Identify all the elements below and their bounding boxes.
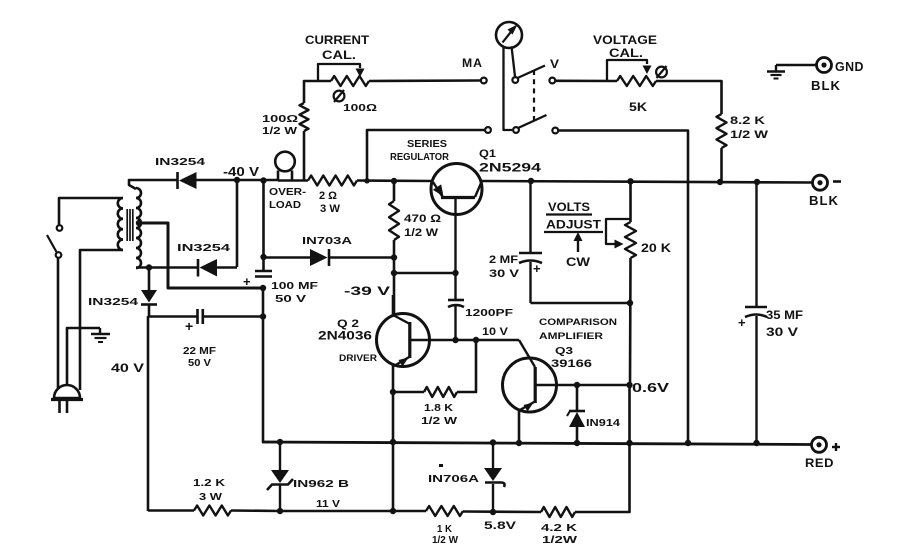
node 20K-2MF junction bbox=[627, 300, 633, 306]
svg-text:-39 V: -39 V bbox=[344, 286, 391, 298]
svg-text:11 V: 11 V bbox=[316, 498, 340, 510]
svg-text:10 V: 10 V bbox=[482, 326, 509, 338]
node 1N914 bottom junction bbox=[574, 440, 580, 446]
ac plug P1 bbox=[51, 385, 83, 413]
node center-tap to filter junction bbox=[260, 285, 266, 291]
wire 20K bottom run bbox=[629, 258, 632, 385]
svg-text:COMPARISON: COMPARISON bbox=[539, 317, 617, 328]
label C1 bbox=[271, 280, 319, 305]
svg-text:LOAD: LOAD bbox=[269, 199, 301, 211]
svg-text:DRIVER: DRIVER bbox=[339, 353, 377, 364]
node secondary bottom junction bbox=[146, 264, 152, 270]
svg-text:IN703A: IN703A bbox=[302, 235, 353, 247]
label CW bbox=[566, 257, 590, 269]
node 0.6V bottom-rail crossing bbox=[626, 440, 632, 446]
screwdriver-adjust symbol R3 bbox=[334, 90, 345, 102]
svg-text:2N4036: 2N4036 bbox=[318, 331, 372, 343]
svg-text:1/2 W: 1/2 W bbox=[404, 227, 439, 239]
label BLK (output) bbox=[809, 193, 839, 208]
svg-text:GND: GND bbox=[835, 60, 864, 74]
svg-text:IN3254: IN3254 bbox=[177, 242, 230, 254]
capacitor C2 22MF 50V bbox=[185, 309, 203, 334]
svg-text:2 Ω: 2 Ω bbox=[319, 190, 337, 202]
svg-text:REGULATOR: REGULATOR bbox=[390, 152, 450, 163]
wire Q2 collector from -39V node bbox=[392, 295, 395, 315]
node 35MF rail junction bbox=[754, 179, 760, 185]
label D1 bbox=[155, 156, 205, 168]
resistor R2 100ohm 1/2W bbox=[300, 103, 309, 131]
node Q1 base junction bbox=[452, 270, 458, 276]
label DRIVER bbox=[339, 353, 377, 364]
label C5 bbox=[766, 310, 803, 339]
wire 2MF to 20K bbox=[531, 302, 631, 305]
wire V contact to pot bbox=[555, 80, 617, 83]
label -39V bbox=[344, 286, 391, 298]
wire 10V row bbox=[430, 339, 519, 342]
meter M1 lead right bbox=[512, 46, 516, 76]
svg-text:1.2 K: 1.2 K bbox=[193, 477, 226, 489]
wire 20K top bbox=[629, 181, 632, 222]
node 1200PF bottom junction bbox=[452, 337, 458, 343]
node 20K rail junction bbox=[627, 178, 633, 184]
node Q3 emitter junction bbox=[516, 440, 522, 446]
label Q3 bbox=[551, 345, 592, 370]
wire Q3 collector lead bbox=[519, 340, 535, 367]
label minus bbox=[833, 180, 841, 183]
transistor Q2 2N4036 bbox=[377, 314, 431, 367]
node zener1 top junction bbox=[277, 439, 283, 445]
label COMPARISON AMPLIFIER bbox=[539, 317, 617, 342]
label D7 bbox=[428, 464, 480, 485]
wire D3 to 40V node bbox=[148, 304, 151, 317]
svg-text:1/2 W: 1/2 W bbox=[421, 415, 457, 427]
label SERIES REGULATOR bbox=[390, 139, 450, 163]
svg-text:Q3: Q3 bbox=[555, 345, 573, 357]
svg-text:20 K: 20 K bbox=[641, 243, 672, 255]
svg-text:IN3254: IN3254 bbox=[88, 296, 138, 308]
svg-text:CAL.: CAL. bbox=[609, 48, 643, 60]
ground symbol (AC) bbox=[91, 328, 110, 342]
svg-text:5.8V: 5.8V bbox=[484, 520, 517, 532]
node 470ohm mid junction bbox=[391, 254, 397, 260]
svg-text:8.2 K: 8.2 K bbox=[730, 115, 765, 127]
zener D6 1N962B 11V bbox=[267, 442, 293, 511]
svg-text:35 MF: 35 MF bbox=[766, 310, 803, 322]
wire MA tap row bbox=[367, 130, 485, 180]
wire 470 top bbox=[393, 181, 396, 201]
wire 1N914 bottom bbox=[576, 427, 579, 443]
capacitor C1 100MF 50V bbox=[243, 271, 272, 289]
svg-text:VOLTAGE: VOLTAGE bbox=[593, 35, 657, 47]
capacitor C4 2MF 30V bbox=[519, 181, 542, 303]
overload breaker bbox=[275, 152, 295, 181]
svg-text:CW: CW bbox=[566, 257, 590, 269]
svg-text:1/2 W: 1/2 W bbox=[730, 129, 769, 141]
wire Q1-base row bbox=[394, 272, 456, 275]
wire 1N703A row left bbox=[264, 256, 311, 259]
svg-text:OVER-: OVER- bbox=[269, 186, 307, 198]
svg-text:5K: 5K bbox=[629, 100, 647, 114]
svg-text:Q 2: Q 2 bbox=[337, 318, 359, 330]
wire 40V vertical run bbox=[147, 316, 150, 511]
node Q2 emitter lower-rail junction bbox=[390, 508, 396, 514]
label GND bbox=[835, 60, 864, 74]
wire top rail segment C bbox=[357, 179, 433, 182]
svg-text:-40 V: -40 V bbox=[223, 165, 260, 179]
wire 22MF row left bbox=[148, 315, 197, 318]
svg-text:AMPLIFIER: AMPLIFIER bbox=[539, 331, 603, 342]
wire 470 bottom run bbox=[393, 240, 396, 314]
label R11 bbox=[541, 522, 578, 546]
terminal GND bbox=[817, 58, 832, 73]
wire top rail segment A bbox=[236, 179, 278, 182]
svg-text:ADJUST: ADJUST bbox=[546, 220, 601, 232]
label C2 bbox=[183, 345, 217, 369]
switch S1 arm bbox=[47, 235, 57, 252]
svg-text:RED: RED bbox=[805, 458, 834, 470]
svg-text:+: + bbox=[533, 261, 541, 276]
potentiometer R3 CURRENT CAL 100ohm bbox=[318, 64, 369, 86]
node -40V junction bbox=[234, 177, 240, 183]
capacitor C5 35MF 30V bbox=[738, 182, 767, 443]
wire Q2 emitter run bbox=[392, 365, 395, 511]
transformer T1 core bbox=[127, 209, 133, 241]
resistor R9 1.2K 3W bbox=[194, 506, 231, 516]
label plus bbox=[832, 443, 840, 451]
wire zener to 1K bbox=[280, 510, 426, 513]
svg-text:39166: 39166 bbox=[551, 358, 592, 370]
wire 1.8K to 10V node bbox=[457, 340, 476, 392]
label 5.8V bbox=[484, 520, 517, 532]
transformer center tap bbox=[136, 220, 263, 288]
label R6 bbox=[404, 213, 441, 239]
label R8 value bbox=[641, 243, 672, 255]
potentiometer R8 20K bbox=[606, 219, 636, 258]
wire plug-left-prong to switch bbox=[57, 258, 60, 389]
diode D5 1N914 bbox=[567, 411, 585, 427]
svg-text:VOLTS: VOLTS bbox=[548, 202, 590, 214]
switch S2b MA-side contact bbox=[485, 127, 491, 133]
transformer T1 primary winding bbox=[118, 198, 123, 250]
wire pot to MA contact bbox=[369, 79, 481, 82]
label C3 bbox=[465, 307, 514, 319]
svg-text:V: V bbox=[550, 57, 559, 71]
wire 8.2K to rail bbox=[720, 148, 723, 182]
wire 1K to 4.2K bbox=[463, 510, 541, 513]
wire -40V riser bbox=[236, 180, 239, 267]
wire D1 to -40V node bbox=[196, 179, 237, 182]
wire 22MF row right bbox=[203, 315, 263, 318]
svg-text:1/2 W: 1/2 W bbox=[432, 534, 458, 546]
terminal RED plus bbox=[812, 437, 827, 452]
resistor R7 1.8K 1/2W bbox=[424, 387, 457, 397]
meter M1 bbox=[496, 22, 522, 48]
wire bottom rail bbox=[262, 442, 811, 445]
wire 1N703A row right bbox=[329, 256, 394, 259]
svg-text:100Ω: 100Ω bbox=[262, 113, 298, 125]
svg-text:50 V: 50 V bbox=[188, 357, 211, 369]
svg-text:IN706A: IN706A bbox=[428, 473, 480, 485]
label D3 bbox=[88, 296, 138, 308]
node 2MF rail junction bbox=[528, 178, 534, 184]
svg-text:+: + bbox=[738, 315, 746, 330]
node 8.2K rail junction bbox=[717, 179, 723, 185]
svg-text:Q1: Q1 bbox=[479, 148, 496, 160]
resistor R6 470ohm 1/2W bbox=[389, 201, 399, 240]
svg-text:4.2 K: 4.2 K bbox=[541, 522, 578, 534]
wire rail to 1N703A node bbox=[262, 181, 265, 257]
label BLK (gnd) bbox=[811, 78, 841, 93]
diode D4 1N703A bbox=[310, 249, 329, 266]
svg-text:MA: MA bbox=[462, 56, 483, 70]
wire secondary bottom to D2 bbox=[136, 266, 199, 269]
label 0.6V bbox=[632, 381, 670, 395]
diode D3 1N3254 (to 40V node) bbox=[141, 290, 157, 305]
label R7 bbox=[421, 402, 457, 427]
node 22MF junction bbox=[260, 313, 266, 319]
svg-text:100 MF: 100 MF bbox=[271, 280, 319, 292]
wire pot to 8.2K bbox=[656, 81, 722, 114]
diode D2 1N3254 (bottom rectifier) bbox=[198, 259, 217, 277]
wire 1N914 top bbox=[576, 385, 579, 411]
wire secondary-bottom to D3 bbox=[148, 268, 151, 291]
label 10V bbox=[482, 326, 509, 338]
label CURRENT CAL bbox=[305, 35, 369, 62]
svg-text:3 W: 3 W bbox=[199, 491, 222, 503]
node V-run bottom junction bbox=[685, 440, 691, 446]
label V bbox=[550, 57, 559, 71]
switch S2a pole bbox=[512, 77, 518, 83]
resistor R11 4.2K 1/2W bbox=[541, 507, 575, 517]
node switch-tap junction bbox=[364, 178, 369, 183]
switch S2b V contact bbox=[549, 78, 555, 84]
resistor R10 1K 1/2W bbox=[426, 506, 463, 516]
svg-text:30 V: 30 V bbox=[489, 268, 520, 280]
node 1.8K top junction bbox=[473, 337, 479, 343]
node 1N703A anode junction bbox=[260, 254, 266, 260]
wire D2 to riser bbox=[216, 266, 237, 269]
svg-text:1200PF: 1200PF bbox=[465, 307, 514, 319]
svg-text:+: + bbox=[243, 274, 251, 289]
wire transformer primary bottom to plug bbox=[80, 250, 123, 390]
label R3 value bbox=[343, 102, 377, 114]
label C4 bbox=[489, 254, 520, 280]
svg-text:50 V: 50 V bbox=[275, 293, 306, 305]
node Q2 emitter 1.8K junction bbox=[390, 389, 396, 395]
switch S2 link (dashed) bbox=[533, 70, 535, 124]
wire Q3 base row bbox=[557, 384, 630, 387]
label R5 bbox=[730, 115, 769, 141]
diode D1 1N3254 (top rectifier) bbox=[178, 172, 197, 189]
node rail-filter junction bbox=[260, 177, 266, 183]
svg-text:2 MF: 2 MF bbox=[489, 254, 518, 266]
wire Q3 emitter bbox=[518, 410, 521, 443]
ground symbol (chassis) bbox=[767, 65, 785, 79]
wire ground to GND terminal bbox=[776, 64, 817, 67]
wire rail to 100ohm resistor bbox=[303, 131, 306, 181]
svg-text:BLK: BLK bbox=[809, 193, 839, 208]
switch S2b arm bbox=[518, 115, 547, 128]
node 1N706A bottom junction bbox=[490, 509, 496, 515]
wire 40V to 1.2K bbox=[148, 509, 194, 512]
label D6 bbox=[293, 478, 350, 510]
switch S1 contact bbox=[57, 225, 63, 231]
label D2 bbox=[177, 242, 230, 254]
label R2 bbox=[262, 113, 298, 137]
potentiometer R4 VOLTAGE CAL 5K bbox=[607, 60, 656, 86]
label VOLTS ADJUST bbox=[544, 202, 603, 232]
svg-text:3 W: 3 W bbox=[320, 203, 341, 215]
terminal BLK minus bbox=[813, 175, 828, 190]
label MA bbox=[462, 56, 483, 70]
wire 100MF to 1N703A node bbox=[262, 257, 265, 271]
meter M1 lead left bbox=[504, 47, 513, 131]
svg-text:2N5294: 2N5294 bbox=[479, 163, 542, 175]
resistor R1 2ohm 3W bbox=[308, 176, 357, 186]
label R1 bbox=[319, 190, 341, 215]
svg-text:1/2W: 1/2W bbox=[542, 534, 577, 546]
wire top rail segment D bbox=[481, 181, 812, 183]
switch S2a MA contact bbox=[481, 78, 487, 84]
CW arrow bbox=[574, 232, 583, 252]
svg-text:470 Ω: 470 Ω bbox=[404, 213, 441, 225]
label overload bbox=[269, 186, 307, 211]
capacitor C3 1200PF bbox=[448, 273, 464, 340]
switch S2b pole bbox=[513, 127, 519, 133]
wire V lower contact run bbox=[558, 131, 688, 444]
wire 0.6V run to lower rail bbox=[575, 385, 630, 512]
transistor Q1 2N5294 bbox=[431, 164, 482, 274]
label R4 value bbox=[629, 100, 647, 114]
svg-text:0.6V: 0.6V bbox=[632, 381, 670, 395]
svg-text:100Ω: 100Ω bbox=[343, 102, 377, 114]
label R9 bbox=[193, 477, 226, 503]
label VOLTAGE CAL bbox=[593, 35, 657, 60]
wire 1.2K to zener bbox=[231, 509, 280, 512]
switch S2a arm bbox=[518, 66, 546, 79]
svg-text:BLK: BLK bbox=[811, 78, 841, 93]
label RED bbox=[805, 458, 834, 470]
svg-text:IN3254: IN3254 bbox=[155, 156, 205, 168]
switch S2b lower contact bbox=[552, 128, 558, 134]
node Q2 emitter bottom-rail junction bbox=[390, 439, 396, 445]
label 40V bbox=[111, 361, 144, 375]
label D5 bbox=[586, 418, 621, 429]
wire filter vertical to bottom rail bbox=[263, 288, 280, 442]
transformer T1 secondary winding bbox=[136, 188, 141, 268]
node 1N914 junction bbox=[574, 382, 580, 388]
svg-text:1/2 W: 1/2 W bbox=[262, 125, 297, 137]
svg-text:+: + bbox=[185, 318, 193, 334]
wire switch to transformer primary top bbox=[59, 198, 123, 225]
svg-text:CAL.: CAL. bbox=[322, 50, 356, 62]
screwdriver-adjust symbol R4 bbox=[656, 66, 667, 78]
svg-text:IN962 B: IN962 B bbox=[293, 478, 350, 490]
label D4 bbox=[302, 235, 353, 247]
label R10 bbox=[432, 523, 458, 546]
label -40V bbox=[223, 165, 260, 179]
svg-text:IN914: IN914 bbox=[586, 418, 621, 429]
svg-text:30 V: 30 V bbox=[766, 327, 798, 339]
label Q1 bbox=[479, 148, 542, 175]
node 470ohm top junction bbox=[391, 178, 397, 184]
label Q2 bbox=[318, 318, 372, 343]
resistor R5 8.2K 1/2W bbox=[717, 114, 727, 148]
node 470-bottom junction bbox=[391, 270, 397, 276]
svg-text:SERIES: SERIES bbox=[407, 139, 447, 150]
node zener1 bottom junction bbox=[277, 508, 283, 514]
zener D7 1N706A 5.8V bbox=[484, 442, 505, 512]
node 35MF bottom junction bbox=[753, 440, 759, 446]
wire 1.8K row left bbox=[393, 391, 424, 394]
transistor Q3 39166 bbox=[503, 358, 558, 412]
svg-text:22 MF: 22 MF bbox=[183, 345, 217, 357]
svg-text:CURRENT: CURRENT bbox=[305, 35, 369, 47]
wire plug to ground bbox=[67, 328, 100, 385]
wire top rail segment B bbox=[278, 179, 308, 182]
switch S1 pole bbox=[56, 252, 62, 258]
wire secondary top to rectifier rail bbox=[129, 180, 177, 189]
node 0.6V junction bbox=[626, 382, 632, 388]
svg-text:1.8 K: 1.8 K bbox=[424, 402, 453, 414]
svg-text:40 V: 40 V bbox=[111, 361, 144, 375]
node 1N706A top junction bbox=[490, 439, 496, 445]
wire 100ohm to pot row bbox=[304, 81, 331, 103]
